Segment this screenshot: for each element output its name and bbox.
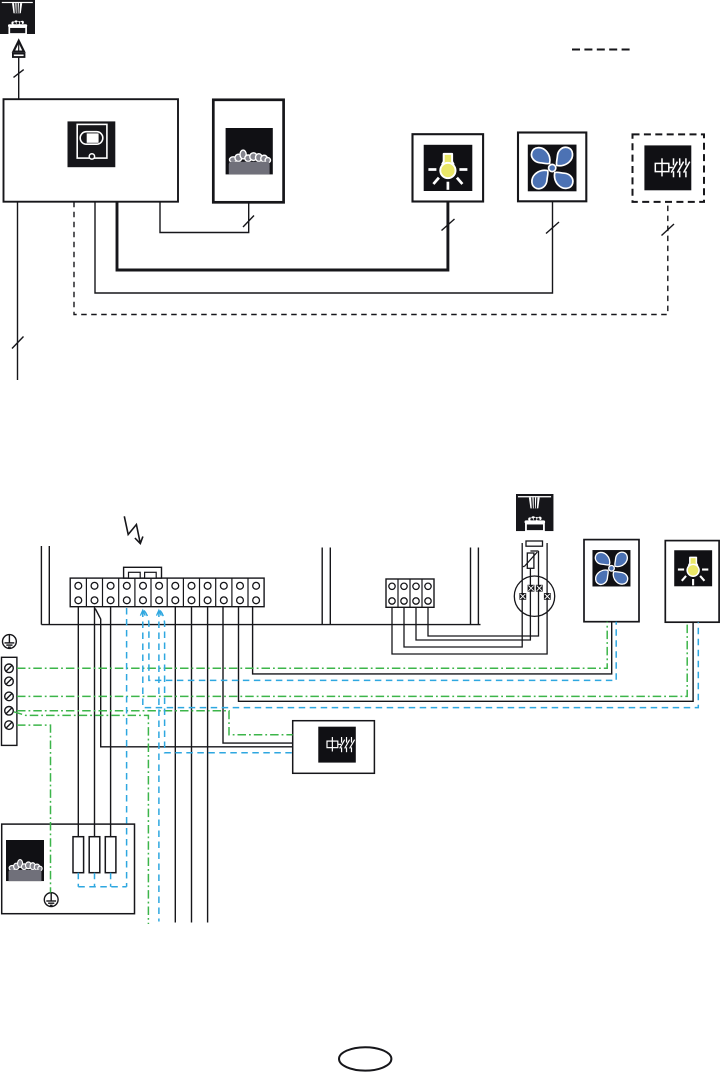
contactor icon (top) <box>644 145 691 190</box>
wire control unit to heater (top) <box>160 202 249 233</box>
wire L3 to element 3 <box>110 607 112 837</box>
neutral wire continuation down <box>158 611 160 922</box>
heating element 2 <box>89 837 100 873</box>
fan box (top) <box>518 133 586 202</box>
lamp box (bottom) <box>665 541 719 623</box>
sensor wire 2 <box>404 543 522 647</box>
wire L2 to element 2 <box>94 607 96 837</box>
wire to contactor coil <box>223 607 293 743</box>
thick wire control unit to lamp <box>117 202 448 271</box>
wire L2 branch to contactor <box>95 609 293 747</box>
heating element 1 <box>73 837 84 873</box>
sauna stones icon (bottom heater) <box>6 840 44 881</box>
cable slash mark <box>14 70 24 78</box>
sensor terminal block (4 poles) <box>386 579 434 607</box>
sensor housing cap <box>526 541 543 546</box>
heater contactor box (bottom) <box>293 721 375 774</box>
cable slash mark <box>662 224 675 236</box>
contactor icon (bottom) <box>318 727 356 763</box>
wire to lamp (live) <box>239 607 694 702</box>
wire L2 continuation down <box>191 607 193 923</box>
cable slash mark <box>546 222 559 234</box>
screw terminal 5 <box>5 721 14 730</box>
sensor terminal squares <box>519 585 550 600</box>
earth wire to heater unit <box>17 725 51 893</box>
panel bottom edge <box>41 624 480 626</box>
sensor wires from terminal strip <box>392 543 547 654</box>
neutral wire to contactor box <box>160 611 293 753</box>
lightning arrow (mains supply) <box>124 516 143 543</box>
sensor wire 4 <box>428 551 539 636</box>
control unit box <box>4 99 179 202</box>
sensor wire 3 <box>416 568 530 640</box>
heater box (top) <box>213 100 283 203</box>
screw terminal 1 <box>5 664 14 673</box>
jumper bridge over N terminals <box>124 567 162 578</box>
temperature sensor symbol (cone) <box>13 41 25 57</box>
neutral wire to elements <box>126 608 128 887</box>
sensor circle <box>514 576 554 616</box>
neutral wire to fan <box>144 611 616 681</box>
earth symbol above strip <box>2 635 16 649</box>
screw terminal 2 <box>5 677 14 686</box>
lamp box (top) <box>413 134 484 201</box>
wire to fan (live) <box>253 607 612 674</box>
legend dashed sample (top right) <box>572 49 630 51</box>
earth terminal strip <box>2 657 17 745</box>
cable slash mark <box>243 216 254 228</box>
earth wire continuation down <box>14 712 148 924</box>
neutral wire to lamp <box>143 611 699 708</box>
cable slash mark <box>12 337 24 349</box>
heater unit box (bottom left) <box>2 824 135 914</box>
sauna stones icon (top heater) <box>226 128 273 174</box>
page number oval <box>339 1047 391 1070</box>
wire L1 to element 1 <box>77 607 79 837</box>
earth wire to fan <box>17 622 607 669</box>
neutral bus under elements <box>78 873 126 887</box>
dashed wire control unit to optional heater <box>74 202 668 315</box>
heating element 3 <box>105 837 116 873</box>
earth symbol in heater box <box>44 893 58 907</box>
fan box (bottom) <box>584 540 639 622</box>
sensor wire 1 <box>392 543 547 654</box>
panel edge slot 3 <box>470 548 472 625</box>
wire sensor to control unit <box>18 57 20 100</box>
sensor pictogram (black) <box>516 494 553 531</box>
fan icon (top) <box>528 145 577 192</box>
light bulb icon (bottom) <box>674 550 712 586</box>
earth wire to lamp <box>17 622 687 696</box>
screw terminal 4 <box>5 707 14 716</box>
wire L3 continuation down <box>207 607 209 923</box>
optional heater box (dashed, top right) <box>633 134 705 202</box>
panel edge slot 2 <box>321 548 323 625</box>
arrowhead on neutral continuation <box>157 610 162 615</box>
panel edge slot 1 <box>40 546 42 625</box>
wire L1 continuation down <box>174 607 176 923</box>
cable slash mark <box>442 219 455 231</box>
screw terminal 3 <box>5 692 14 701</box>
thermistor symbol <box>523 551 539 568</box>
fan icon (bottom) <box>592 550 630 586</box>
main terminal block <box>70 578 264 607</box>
light bulb icon (top) <box>424 145 473 191</box>
wire control unit to fan <box>95 201 553 293</box>
wire control unit left drop <box>17 202 19 380</box>
sauna room icon (top left) <box>0 0 35 34</box>
control panel icon <box>68 121 116 167</box>
arrowhead on neutral wire (lamp) <box>140 610 145 615</box>
earth wire to contactor box <box>17 711 293 735</box>
